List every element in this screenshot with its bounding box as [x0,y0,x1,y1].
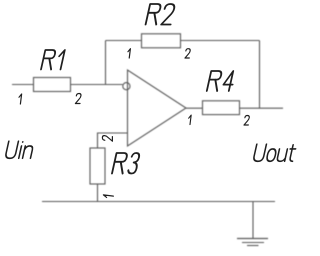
pin 1 of R1 [18,94,21,104]
resistor R4 [203,101,240,115]
op-amp inverting input bubble [123,83,130,90]
label Uout [253,144,297,161]
wire R2 pin2 [181,40,260,42]
label Uin [5,141,34,158]
pin 1 of R4 / op-amp output [188,115,191,125]
ground symbol bar 3 [247,245,259,247]
resistor R1 [34,78,71,92]
resistor R3 [90,148,105,184]
label R3 [112,153,140,174]
wire feedback right vertical [259,41,261,109]
wire R3 pin1 to ground rail [97,184,99,202]
pin 1 of R2 [127,49,130,58]
wire R4 pin2 / output [240,107,284,109]
wire non-inverting input [98,133,128,148]
wire feedback left vertical [105,41,107,85]
wire op-amp output [186,107,203,109]
pin 2 of R2 [185,49,190,58]
ground symbol bar 2 [242,242,264,244]
ground rail [42,201,275,203]
op-amp U1 [128,70,187,146]
pin 2 of R1 [75,94,81,104]
label R1 [41,50,65,70]
pin 1 of R3 (rotated) [103,195,113,198]
wire input left [12,84,34,86]
label R4 [207,71,236,91]
resistor R2 [142,34,181,48]
label R2 [146,4,176,25]
wire R1 pin2 to inverting node [71,84,123,86]
wire ground drop [252,202,254,239]
pin 2 of R3 (rotated) [102,135,112,141]
wire R2 pin1 [106,40,142,42]
ground symbol bar 1 [237,238,268,240]
pin 2 of R4 [244,116,250,126]
